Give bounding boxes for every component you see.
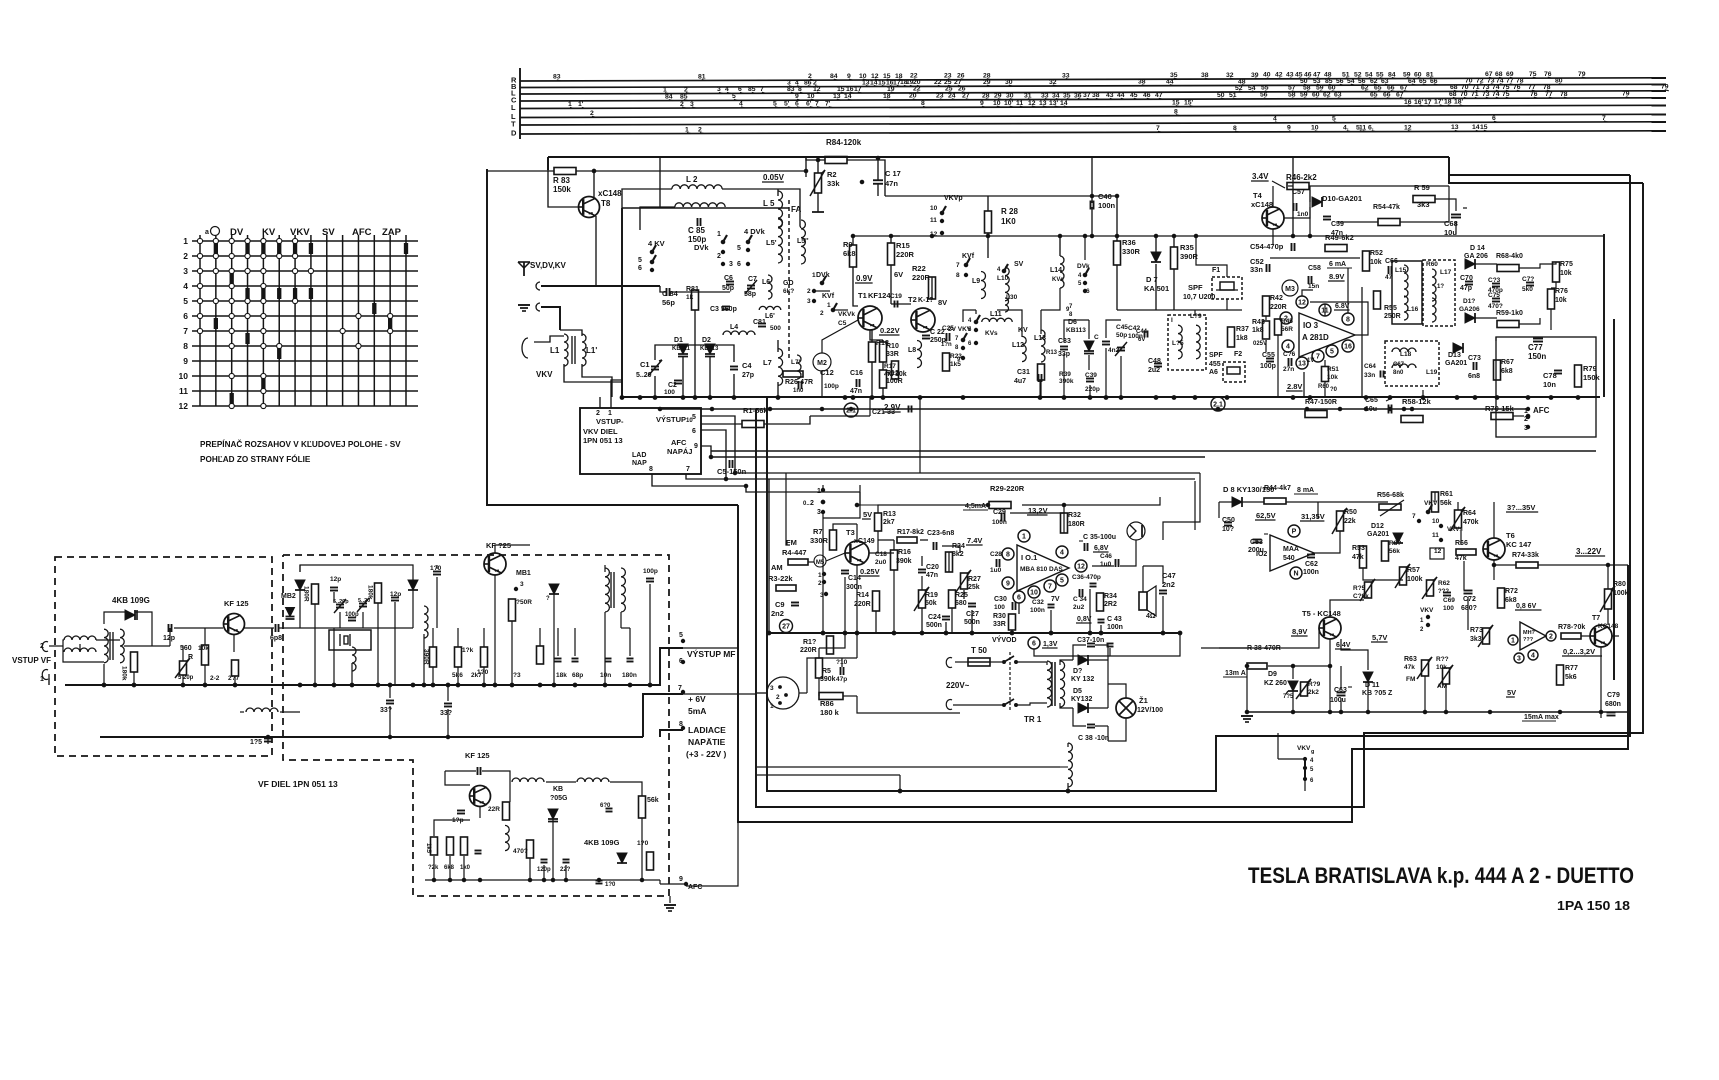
- wire: [520, 114, 1666, 117]
- wire: [1457, 502, 1459, 510]
- wire: [878, 505, 988, 513]
- svg-text:33n: 33n: [1250, 265, 1263, 274]
- svg-text:R17: R17: [884, 363, 896, 370]
- wire: [529, 858, 531, 880]
- svg-text:2?7: 2?7: [228, 675, 240, 682]
- node bottom bus right: [1247, 711, 1628, 713]
- svg-text:2: 2: [810, 500, 814, 507]
- transistor T2: [911, 308, 935, 332]
- wire: [1060, 660, 1073, 665]
- svg-text:R60: R60: [1318, 384, 1330, 390]
- svg-text:2u2: 2u2: [1148, 367, 1160, 374]
- svg-text:KB113: KB113: [700, 346, 719, 352]
- svg-text:25k: 25k: [968, 584, 980, 591]
- svg-text:2n2: 2n2: [771, 609, 784, 618]
- wire: [1143, 566, 1163, 584]
- svg-text:1: 1: [608, 410, 612, 417]
- node 27 circle: [780, 620, 793, 633]
- resistor R14: [873, 591, 880, 611]
- capacitor C78: [1554, 370, 1562, 372]
- svg-text:F1: F1: [1212, 267, 1220, 274]
- svg-text:025V: 025V: [1253, 341, 1267, 347]
- svg-text:47n: 47n: [885, 179, 898, 188]
- capacitor 33n a: [386, 700, 394, 702]
- svg-text:R46-2k2: R46-2k2: [1286, 173, 1317, 182]
- svg-text:R3-22k: R3-22k: [768, 574, 793, 583]
- wire: [931, 277, 933, 299]
- svg-text:220R: 220R: [896, 250, 915, 259]
- wire: [1218, 502, 1220, 518]
- resistor 18k b: [455, 647, 462, 667]
- capacitor 12p b: [330, 587, 338, 589]
- wire: [1219, 647, 1247, 649]
- inductor L7: [778, 349, 783, 386]
- transformer VF input: [64, 636, 96, 640]
- wire: [445, 770, 476, 772]
- wire: [1338, 221, 1378, 223]
- svg-text:R2: R2: [827, 170, 837, 179]
- wire: [520, 131, 1666, 134]
- wire: [1196, 236, 1227, 277]
- svg-text:1n0: 1n0: [1297, 211, 1309, 218]
- svg-text:2: 2: [183, 251, 188, 261]
- svg-text:2: 2: [1549, 634, 1553, 641]
- svg-text:1: 1: [1420, 618, 1424, 624]
- svg-text:I: I: [1171, 317, 1173, 324]
- svg-text:220R: 220R: [1270, 304, 1287, 311]
- wire: [1324, 304, 1326, 316]
- wire: [701, 430, 726, 479]
- wire: [660, 730, 683, 737]
- svg-text:L18: L18: [1400, 351, 1412, 358]
- svg-text:4: 4: [1310, 758, 1314, 764]
- wire: [822, 512, 824, 633]
- svg-text:VKV DIEL: VKV DIEL: [583, 427, 618, 436]
- wire: [857, 485, 860, 505]
- inductor L6: [768, 275, 772, 299]
- wire: [1018, 603, 1020, 614]
- svg-text:R37: R37: [1236, 326, 1249, 333]
- svg-text:10': 10': [1004, 100, 1014, 107]
- svg-text:10k: 10k: [1370, 259, 1382, 266]
- wire: [951, 608, 953, 633]
- wire: [1040, 380, 1042, 397]
- svg-text:L5': L5': [766, 238, 777, 247]
- svg-text:5: 5: [737, 245, 741, 252]
- capacitor C68: [1451, 214, 1461, 216]
- capacitor C33: [1060, 346, 1068, 348]
- svg-text:4: 4: [1060, 550, 1064, 557]
- svg-text:R17-8k2: R17-8k2: [897, 529, 924, 536]
- svg-text:D13: D13: [1448, 352, 1461, 359]
- svg-text:R64: R64: [1463, 510, 1476, 517]
- wire: [621, 627, 630, 629]
- resistor R62 pot: [1427, 580, 1434, 596]
- svg-text:M2: M2: [817, 360, 827, 367]
- svg-text:R 28: R 28: [1001, 207, 1018, 216]
- svg-text:L7: L7: [763, 358, 772, 367]
- svg-text:T3: T3: [846, 528, 855, 537]
- resistor R24: [946, 552, 953, 572]
- svg-text:22k: 22k: [1344, 518, 1356, 525]
- svg-text:12V/100: 12V/100: [1137, 707, 1163, 714]
- wire: [1039, 380, 1041, 397]
- wire: [1329, 639, 1331, 712]
- resistor 470R osc: [527, 840, 534, 858]
- svg-text:47k: 47k: [1352, 554, 1364, 561]
- resistor R34: [1097, 593, 1104, 611]
- wire: [1060, 766, 1068, 768]
- transformer TR1 bottom winding: [1068, 743, 1072, 787]
- svg-text:R1-56k: R1-56k: [743, 406, 768, 415]
- resistor R67: [1494, 360, 1501, 380]
- svg-text:50k: 50k: [925, 600, 937, 607]
- svg-text:SV: SV: [322, 227, 335, 238]
- svg-text:R45: R45: [1281, 318, 1293, 325]
- svg-text:R32: R32: [1068, 512, 1081, 519]
- svg-text:12p: 12p: [390, 591, 401, 598]
- wire: [1108, 684, 1126, 698]
- svg-text:1V: 1V: [1307, 358, 1314, 364]
- wire: [987, 196, 989, 211]
- svg-text:???: ???: [1523, 637, 1534, 643]
- svg-text:6k?: 6k?: [783, 288, 794, 295]
- svg-text:22?: 22?: [560, 867, 571, 873]
- node VKV plug: [522, 338, 528, 358]
- svg-text:R68-4k0: R68-4k0: [1496, 253, 1523, 260]
- wire: [885, 195, 1117, 197]
- wire: [548, 158, 578, 207]
- wire: [640, 207, 675, 230]
- wire: [818, 678, 820, 696]
- svg-text:47k: 47k: [1404, 664, 1415, 671]
- wire: [1034, 649, 1110, 656]
- op-amp IO1 MBA810: [1017, 545, 1069, 591]
- wire: [870, 712, 960, 714]
- wire: [1173, 236, 1175, 247]
- inductor L5: [778, 191, 783, 227]
- trimcap 5-20 b: [359, 603, 367, 605]
- svg-text:7: 7: [1069, 304, 1073, 310]
- wire: [1265, 316, 1267, 320]
- svg-text:C3 560p: C3 560p: [710, 306, 737, 313]
- wire: [948, 552, 950, 572]
- wire: [683, 647, 738, 649]
- resistor R42: [1263, 296, 1270, 316]
- diode D5: [1078, 703, 1088, 713]
- svg-text:8.9V: 8.9V: [1329, 272, 1344, 281]
- svg-text:C21-33: C21-33: [872, 409, 895, 416]
- capacitor C76: [1526, 282, 1534, 284]
- svg-text:C 43: C 43: [1107, 616, 1122, 623]
- svg-text:1?0: 1?0: [430, 565, 442, 572]
- svg-text:R5: R5: [822, 668, 831, 675]
- svg-text:1?n: 1?n: [941, 342, 952, 348]
- svg-text:15mA max: 15mA max: [1524, 714, 1559, 721]
- wire: [823, 492, 860, 518]
- svg-text:D2: D2: [702, 337, 711, 344]
- wire: [574, 628, 576, 656]
- svg-text:7: 7: [955, 336, 959, 342]
- svg-text:9: 9: [694, 443, 698, 450]
- capacitor 22p: [563, 859, 570, 861]
- svg-text:C54-470p: C54-470p: [1250, 242, 1284, 251]
- wire: [1314, 531, 1340, 553]
- wire: [100, 736, 643, 738]
- svg-text:POHĽAD ZO STRANY FÓLIE: POHĽAD ZO STRANY FÓLIE: [200, 453, 311, 464]
- svg-text:6k8: 6k8: [1501, 368, 1513, 375]
- svg-text:C?3: C?3: [1488, 277, 1501, 284]
- wire: [169, 628, 171, 646]
- svg-text:500: 500: [770, 325, 781, 332]
- transistor T1: [858, 306, 882, 330]
- svg-text:8: 8: [1346, 317, 1350, 324]
- resistor R80: [1605, 589, 1612, 609]
- svg-text:C32: C32: [1032, 599, 1044, 606]
- svg-text:220R: 220R: [800, 647, 817, 654]
- svg-text:6n8: 6n8: [1468, 373, 1480, 380]
- svg-text:62,5V: 62,5V: [1256, 511, 1276, 520]
- wire: [875, 611, 877, 633]
- svg-text:2k7: 2k7: [883, 519, 895, 526]
- svg-text:+ 6V: + 6V: [688, 694, 706, 704]
- node VF dashed box B: [283, 555, 669, 896]
- svg-text:C57: C57: [1292, 189, 1305, 196]
- svg-text:KV: KV: [1018, 327, 1028, 334]
- svg-text:1: 1: [817, 488, 821, 495]
- svg-text:6: 6: [737, 261, 741, 268]
- wire: [1277, 335, 1279, 397]
- wire: [299, 590, 301, 628]
- svg-text:L17: L17: [1440, 269, 1452, 276]
- wire: [432, 667, 434, 685]
- capacitor C17: [873, 179, 883, 181]
- wire: [1091, 196, 1093, 203]
- wire: [1010, 513, 1064, 533]
- capacitor C66: [1388, 266, 1390, 274]
- wire: [711, 456, 1205, 458]
- svg-text:0,8 6V: 0,8 6V: [1516, 603, 1537, 610]
- capacitor C1 tuning: [651, 366, 659, 368]
- svg-text:5,7V: 5,7V: [1372, 633, 1387, 642]
- svg-text:13,2V: 13,2V: [1028, 506, 1048, 515]
- resistor R76: [1548, 289, 1555, 309]
- svg-text:VÝSTUP: VÝSTUP: [656, 415, 686, 424]
- svg-text:5: 5: [183, 296, 188, 306]
- svg-text:9: 9: [679, 876, 683, 883]
- svg-text:33R: 33R: [993, 621, 1006, 628]
- svg-text:13': 13': [1049, 100, 1059, 107]
- svg-text:6: 6: [692, 428, 696, 435]
- varactor D1: [678, 344, 688, 354]
- wire: [1435, 199, 1456, 211]
- svg-text:4,5mA: 4,5mA: [965, 503, 986, 510]
- svg-text:100p: 100p: [1260, 363, 1276, 370]
- wire: [49, 645, 63, 647]
- wire: [511, 650, 513, 685]
- resistor R61: [1432, 492, 1439, 512]
- node junction dots vf bus: [102, 683, 106, 687]
- node IO1 pins: [1002, 548, 1014, 560]
- capacitor C28: [996, 559, 998, 567]
- switch mains 2: [1003, 704, 1006, 707]
- wire: [890, 236, 892, 243]
- wire: [1341, 639, 1368, 670]
- svg-text:6: 6: [968, 341, 972, 347]
- svg-text:D9: D9: [1268, 671, 1277, 678]
- capacitor C16: [856, 379, 858, 387]
- resistor R79: [1575, 365, 1582, 387]
- wire: [1155, 236, 1157, 252]
- svg-text:C16: C16: [850, 370, 863, 377]
- svg-text:?50R: ?50R: [516, 599, 532, 606]
- svg-text:0.22V: 0.22V: [880, 326, 900, 335]
- svg-text:KY132: KY132: [1071, 696, 1093, 703]
- svg-text:C69: C69: [1443, 597, 1455, 604]
- capacitor C5: [729, 460, 731, 468]
- svg-text:R?9: R?9: [1308, 681, 1321, 688]
- svg-text:R1?: R1?: [803, 639, 816, 646]
- node detector box: [1495, 337, 1497, 341]
- wire: [103, 664, 105, 685]
- wire: [65, 648, 683, 685]
- capacitor C45 trim: [1117, 347, 1125, 349]
- svg-text:C 38 -10n: C 38 -10n: [1078, 735, 1109, 742]
- svg-text:390k: 390k: [1059, 378, 1074, 385]
- capacitor C75: [1492, 298, 1500, 300]
- svg-text:2n2: 2n2: [1162, 580, 1175, 589]
- wire: [483, 667, 485, 685]
- wire: [1073, 708, 1086, 726]
- ground: [518, 304, 530, 306]
- wire: [1513, 415, 1524, 417]
- svg-text:10,7 U200: 10,7 U200: [1183, 294, 1215, 301]
- svg-text:5k6: 5k6: [1565, 674, 1577, 681]
- wire: [604, 565, 606, 572]
- wire: [299, 565, 301, 572]
- inductor L3: [675, 203, 725, 207]
- inductor L9: [981, 272, 986, 299]
- svg-text:1k: 1k: [686, 294, 694, 301]
- wire: [1304, 781, 1306, 791]
- wire: [822, 320, 858, 353]
- svg-text:0.9V: 0.9V: [856, 274, 873, 283]
- capacitor C38a: [1087, 643, 1095, 645]
- svg-text:10: 10: [930, 205, 938, 212]
- svg-text:NAP: NAP: [632, 460, 647, 467]
- svg-text:xC148: xC148: [1251, 200, 1273, 209]
- resistor R43: [1263, 321, 1270, 339]
- resistor 180R vf: [312, 584, 319, 604]
- svg-text:2-2: 2-2: [210, 675, 220, 682]
- svg-text:220V~: 220V~: [946, 681, 970, 690]
- wire: [655, 345, 683, 360]
- node IO4 pins: [1508, 635, 1518, 645]
- svg-text:680?: 680?: [1461, 605, 1477, 612]
- resistor R12: [880, 370, 887, 388]
- svg-text:8: 8: [956, 272, 960, 279]
- svg-text:5mA: 5mA: [688, 706, 706, 716]
- svg-text:10: 10: [1432, 518, 1440, 525]
- resistor R32: [1061, 513, 1068, 533]
- wire: [1073, 645, 1086, 660]
- svg-text:10k: 10k: [198, 645, 209, 652]
- svg-text:5: 5: [1310, 767, 1314, 773]
- node junction dots second bus: [658, 407, 662, 411]
- svg-text:R34: R34: [1104, 593, 1117, 600]
- wire: [1422, 390, 1424, 397]
- svg-text:6k8: 6k8: [843, 249, 856, 258]
- wire: [1201, 628, 1319, 648]
- svg-text:6,4V: 6,4V: [1336, 642, 1351, 649]
- svg-text:MBA 810 DAS: MBA 810 DAS: [1020, 566, 1063, 573]
- wire: [1110, 633, 1180, 656]
- resistor osc r2: [447, 837, 454, 855]
- op-amp IO4: [1520, 622, 1546, 650]
- capacitor C55: [1266, 358, 1274, 360]
- wire: [362, 612, 364, 628]
- svg-text:R67: R67: [1501, 359, 1514, 366]
- wire: [621, 208, 623, 397]
- capacitor 18p: [457, 810, 465, 812]
- svg-text:AFC: AFC: [688, 884, 702, 891]
- svg-text:3: 3: [183, 266, 188, 276]
- svg-text:8n0: 8n0: [1393, 370, 1404, 376]
- resistor R49b: [1301, 682, 1308, 696]
- svg-text:12: 12: [1298, 300, 1306, 307]
- svg-text:KF 125: KF 125: [465, 751, 490, 760]
- wire: [389, 685, 391, 698]
- wire: [487, 170, 554, 172]
- node 6 1.3V: [1028, 637, 1040, 649]
- capacitor C6: [726, 281, 734, 283]
- wire: [1088, 659, 1108, 661]
- svg-text:300n: 300n: [846, 584, 862, 591]
- svg-text:AFC: AFC: [352, 227, 372, 238]
- wire: [1116, 196, 1118, 241]
- wire: [135, 612, 152, 646]
- wire: [1063, 505, 1065, 513]
- wire: [1059, 236, 1061, 256]
- wire vf row: [63, 652, 104, 662]
- svg-text:7?5: 7?5: [1283, 694, 1294, 700]
- capacitor C42: [1102, 341, 1110, 343]
- wire: [547, 157, 549, 170]
- svg-text:10: 10: [1030, 590, 1038, 597]
- capacitor C74: [1492, 283, 1500, 285]
- svg-text:C81: C81: [753, 319, 766, 326]
- svg-text:100n: 100n: [1030, 607, 1045, 614]
- svg-text:C 85: C 85: [688, 226, 705, 235]
- resistor R36: [1114, 241, 1121, 265]
- wire: [660, 883, 686, 885]
- svg-text:C2: C2: [668, 382, 677, 389]
- wire: [1142, 566, 1144, 592]
- svg-text:R60: R60: [1426, 261, 1438, 268]
- resistor R73 pot: [1483, 628, 1490, 644]
- wire: [821, 371, 823, 397]
- svg-text:M3: M3: [1285, 286, 1295, 293]
- svg-text:3k3: 3k3: [1417, 200, 1430, 209]
- svg-text:56k: 56k: [1440, 500, 1452, 507]
- capacitor C85: [697, 218, 699, 226]
- wire: [599, 397, 601, 408]
- wire: [124, 645, 170, 647]
- svg-text:C64: C64: [1364, 363, 1376, 370]
- wire: [1303, 372, 1305, 397]
- svg-text:C7: C7: [748, 276, 757, 283]
- inductor L5s: [801, 220, 805, 264]
